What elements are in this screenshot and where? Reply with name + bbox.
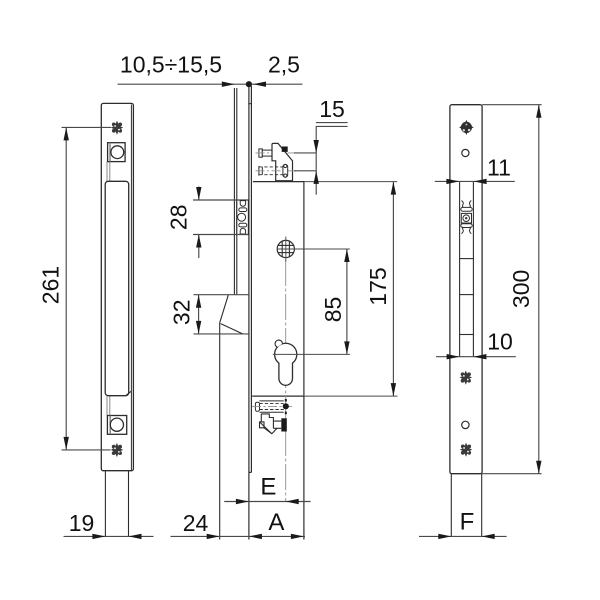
right screw top [459, 120, 474, 135]
dim 85 [344, 249, 349, 354]
left plate long slot [105, 181, 129, 395]
svg-text:15: 15 [319, 96, 345, 122]
svg-text:175: 175 [365, 267, 391, 305]
left faceplate outline [101, 103, 133, 470]
right plate outline [450, 105, 482, 474]
svg-text:19: 19 [69, 510, 95, 536]
screw hole circle [277, 237, 294, 262]
screw symbol left bottom [111, 443, 123, 457]
body mid line 396 [252, 395, 397, 397]
svg-text:85: 85 [320, 297, 346, 323]
dim 28 [193, 187, 248, 259]
dim E [224, 499, 310, 504]
svg-text:E: E [260, 474, 276, 501]
dim 10,5-15,5 and 2,5 line [118, 81, 303, 87]
svg-text:28: 28 [166, 205, 192, 231]
right hole top [462, 149, 469, 156]
dim F [419, 534, 507, 539]
svg-text:2,5: 2,5 [268, 52, 300, 78]
middle faceplate [248, 86, 252, 540]
keeper box lower [107, 416, 126, 435]
left slot corner tick [126, 391, 131, 395]
top mechanism bracket [272, 143, 293, 180]
screw symbol left top [111, 121, 123, 135]
right screw bottom [460, 443, 472, 457]
dim 24 and A [171, 534, 306, 539]
right screw mid [460, 371, 472, 385]
top mechanism screw [259, 149, 272, 157]
lower mechanism black block [281, 418, 287, 431]
dim 32 [194, 295, 249, 334]
axis vertical cylinder [285, 260, 287, 502]
dim 261 [62, 127, 112, 450]
svg-text:10,5÷15,5: 10,5÷15,5 [120, 52, 222, 78]
lock body top edge [253, 181, 397, 183]
right slot [460, 182, 474, 357]
top mechanism axis [256, 152, 297, 154]
svg-text:261: 261 [38, 266, 64, 304]
top mechanism black nut [282, 147, 288, 152]
svg-text:F: F [460, 509, 475, 536]
right bottom strip [451, 474, 481, 537]
left plate channel lines [107, 162, 110, 416]
cylinder hole [275, 340, 297, 385]
lower mechanism screw [252, 399, 292, 414]
top mechanism hidden screw [256, 164, 317, 177]
left bottom strip [105, 471, 128, 537]
svg-text:24: 24 [183, 510, 209, 536]
keeper box upper [108, 143, 126, 162]
cylinder ext line [273, 353, 350, 355]
svg-text:A: A [268, 509, 284, 536]
dim 11 [435, 179, 515, 184]
dim 10 [436, 354, 516, 359]
middle rod [234, 88, 236, 295]
right hole bottom [462, 421, 469, 428]
lower mechanism bracket [260, 414, 282, 434]
adjuster block 28 [237, 200, 249, 235]
right roller keeper [461, 201, 472, 234]
svg-text:300: 300 [508, 270, 534, 308]
lock body front edge [303, 182, 305, 540]
dim 300 [482, 105, 541, 474]
dim 19 [64, 534, 154, 539]
svg-text:10: 10 [487, 328, 513, 354]
svg-text:11: 11 [487, 155, 511, 181]
dim 15 [314, 123, 348, 195]
screw hole ext line [277, 248, 350, 250]
wedge on rod [220, 295, 243, 540]
svg-text:32: 32 [169, 300, 195, 326]
dim 175 [391, 182, 396, 397]
